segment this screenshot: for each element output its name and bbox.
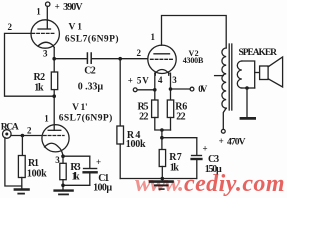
svg-text:6SL7(6N9P): 6SL7(6N9P) — [65, 34, 119, 45]
wire +5V to pin4 — [137, 89, 155, 91]
wire V2 pin4 down — [154, 73, 156, 100]
wire centre down to R7 — [161, 130, 163, 150]
node pin4 dot — [153, 88, 157, 92]
svg-text:R7: R7 — [169, 152, 182, 163]
resistor R3 — [60, 163, 66, 179]
wire C1 bottom — [89, 173, 91, 186]
svg-text:V 1': V 1' — [72, 103, 88, 113]
resistor R4 — [117, 126, 124, 144]
wire R2 bottom to node B — [53, 90, 55, 97]
svg-text:+ 5V: + 5V — [128, 76, 150, 86]
wire RCA sleeve to ground — [5, 138, 22, 187]
tube V2 plate — [154, 53, 170, 55]
wire pin3 to 0V — [171, 88, 191, 90]
wire C2 to V2 grid — [91, 58, 147, 60]
wire cathode down to ground — [62, 156, 64, 163]
svg-text:www.: www. — [135, 171, 184, 197]
speaker box — [260, 66, 269, 80]
svg-text:SPEAKER: SPEAKER — [239, 48, 278, 58]
svg-text:1: 1 — [44, 113, 49, 123]
wire branch to C3 — [162, 137, 197, 139]
wire V2 pin3 down — [170, 73, 172, 100]
node V1' cathode dot — [61, 154, 65, 158]
node R1 top dot — [21, 134, 25, 138]
svg-text:150µ: 150µ — [205, 164, 222, 175]
node pin3 dot — [169, 87, 173, 91]
terminal 0V — [190, 87, 194, 91]
transformer core — [228, 44, 230, 110]
node C3 branch dot — [160, 136, 164, 140]
wire V1 plate lead — [46, 6, 48, 28]
svg-text:2: 2 — [27, 126, 32, 136]
wire secondary bottom — [242, 87, 255, 89]
wire R6 bottom — [170, 118, 172, 131]
node rail dot — [161, 177, 165, 181]
svg-text:1: 1 — [151, 32, 156, 42]
wire node A to C2 — [54, 58, 87, 60]
wire R3/C1 bottom join — [63, 184, 90, 186]
svg-text:22: 22 — [176, 112, 185, 123]
ground (V1' cathode) — [55, 189, 73, 191]
wire speaker stub — [255, 72, 260, 74]
wire primary bottom to +470V — [223, 108, 226, 129]
svg-text:1k: 1k — [170, 163, 179, 174]
svg-text:V 1: V 1 — [69, 23, 83, 33]
wire C3 top lead — [196, 138, 198, 155]
wire V1' cathode node to R3/C1 — [63, 155, 90, 157]
svg-text:+: + — [55, 2, 60, 12]
svg-text:1: 1 — [36, 6, 41, 16]
ground (cathode R7) — [150, 180, 173, 183]
terminal +5V — [133, 88, 137, 92]
terminal +470V — [221, 129, 225, 133]
tube V1 grid (dashed) — [32, 32, 56, 34]
tube V2 filament — [155, 70, 169, 74]
svg-text:390V: 390V — [63, 2, 83, 13]
wire bottom rail — [120, 178, 196, 180]
wire R4 bottom to bottom rail — [119, 144, 121, 179]
node A dot — [52, 57, 56, 61]
tube V1 plate — [38, 28, 51, 30]
wire V1 cathode down through node A — [53, 48, 55, 73]
resistor R7 — [159, 150, 165, 167]
svg-text:R2: R2 — [34, 72, 46, 83]
svg-text:+: + — [203, 144, 208, 154]
tube V2 envelope — [148, 45, 176, 73]
svg-text:1k: 1k — [72, 171, 80, 182]
wire R7 bottom to ground — [161, 167, 163, 182]
svg-text:470V: 470V — [227, 138, 246, 148]
terminal +390V — [46, 2, 50, 6]
svg-text:6SL7(6N9P): 6SL7(6N9P) — [59, 112, 113, 123]
wire R5 bottom — [155, 118, 171, 131]
wire RCA to V1' grid — [11, 135, 41, 137]
resistor R2 — [51, 72, 57, 90]
svg-text:100k: 100k — [27, 168, 47, 179]
wire node B down to V1' plate — [53, 96, 55, 130]
resistor R6 — [167, 100, 173, 118]
ground bar (input) — [15, 188, 29, 190]
capacitor C1 — [84, 168, 97, 170]
node secondary dot — [245, 86, 249, 90]
node R3 bottom dot — [61, 184, 65, 188]
svg-text:2: 2 — [8, 22, 13, 32]
wire C1 top lead — [89, 156, 91, 168]
ground bar (speaker) — [241, 117, 255, 120]
node B dot — [52, 94, 56, 98]
svg-text:100µ: 100µ — [93, 183, 112, 194]
capacitor C2 — [86, 53, 88, 63]
node filament centre dot — [160, 128, 164, 132]
svg-text:RCA: RCA — [1, 123, 19, 133]
RCA jack — [3, 130, 12, 139]
wire R1 top — [21, 136, 23, 156]
tube V1' plate — [48, 129, 61, 131]
node C dot — [118, 57, 122, 61]
svg-text:+: + — [96, 157, 101, 167]
tube V1' envelope — [42, 125, 69, 152]
svg-text:100k: 100k — [126, 139, 146, 150]
capacitor C3 — [192, 155, 202, 157]
svg-text:0V: 0V — [198, 84, 208, 94]
speaker horn — [268, 57, 283, 87]
tube V1 envelope — [31, 20, 59, 48]
tube V1 cathode — [38, 42, 54, 47]
svg-text:2: 2 — [137, 48, 142, 58]
svg-text:cediy.com: cediy.com — [184, 171, 285, 197]
transformer secondary coil — [237, 61, 242, 88]
wire C3 bottom lead — [196, 160, 198, 179]
svg-text:4300B: 4300B — [183, 56, 204, 65]
svg-text:4: 4 — [158, 75, 163, 85]
transformer primary coil — [222, 48, 226, 108]
tube V1' cathode — [45, 143, 64, 156]
svg-text:3: 3 — [172, 75, 177, 85]
wire V1 grid to left rail down to node B — [5, 33, 55, 96]
svg-text:3: 3 — [55, 155, 60, 165]
svg-text:0 .33µ: 0 .33µ — [78, 82, 104, 93]
wire R3 bottom — [62, 180, 64, 190]
wire node C down to R4 — [119, 59, 121, 126]
wire secondary to ground — [246, 88, 248, 117]
resistor R5 — [152, 100, 158, 118]
svg-text:C2: C2 — [84, 66, 96, 77]
tube V1' grid (dashed) — [44, 135, 65, 137]
tube V2 grid (dashed) — [151, 58, 174, 60]
svg-text:1k: 1k — [34, 82, 44, 93]
svg-text:3: 3 — [43, 49, 48, 59]
primary tap stub — [215, 75, 224, 77]
svg-text:22: 22 — [139, 112, 148, 123]
wire V2 plate to top rail to transformer — [162, 16, 227, 49]
resistor R1 — [18, 156, 25, 178]
wire secondary top — [242, 61, 255, 88]
svg-text:+: + — [219, 136, 224, 146]
svg-text:R1: R1 — [28, 158, 39, 169]
wire R1 bottom to ground — [21, 178, 23, 189]
